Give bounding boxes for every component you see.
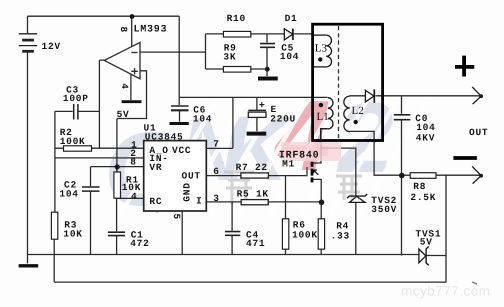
faint chinese-like glyphs bbox=[144, 172, 362, 213]
svg-text:10K: 10K bbox=[63, 228, 82, 239]
svg-text:3: 3 bbox=[213, 193, 219, 204]
wire: C1 stubs bbox=[116, 198, 118, 254]
plus output arrow terminal bbox=[472, 87, 481, 104]
wire: L2 bottom exit bbox=[350, 131, 402, 175]
wire: 12V vertical drop bbox=[178, 16, 180, 105]
plus output symbol bbox=[455, 56, 474, 77]
svg-text:5V: 5V bbox=[117, 109, 130, 120]
wire: R4 leads bbox=[320, 202, 322, 255]
svg-text:LM393: LM393 bbox=[134, 25, 168, 36]
wire: TVS1 cathode to corner bbox=[54, 256, 446, 283]
wire: C5 bottom stub bbox=[266, 47, 268, 76]
wire: LM393 pin4 stub bbox=[130, 74, 132, 101]
wire: battery bottom to bottom rail bbox=[27, 52, 29, 255]
wire: TVS2 branch bbox=[321, 148, 356, 196]
wire: VR link vertical bbox=[116, 119, 118, 172]
svg-text:104: 104 bbox=[280, 51, 299, 62]
svg-text:104: 104 bbox=[193, 113, 212, 124]
wire: left bus to R3 bbox=[54, 111, 56, 212]
capacitor E 220U electrolytic bbox=[248, 102, 266, 117]
resistor R9 3K bbox=[223, 67, 250, 73]
svg-text:VR: VR bbox=[149, 162, 162, 173]
wire: output line with diode to plus terminal bbox=[376, 95, 480, 97]
svg-text:7: 7 bbox=[213, 139, 219, 150]
wire: R9 R10 left node bbox=[205, 34, 207, 69]
svg-text:471: 471 bbox=[246, 238, 265, 249]
wire: pin2 line bbox=[55, 157, 143, 159]
svg-text:4: 4 bbox=[119, 83, 130, 89]
wire: R6 branch bbox=[285, 176, 287, 255]
wire: R3 bottom lead bbox=[53, 239, 55, 255]
svg-text:L1: L1 bbox=[317, 111, 329, 123]
wire: C4 stubs bbox=[231, 202, 233, 255]
resistor R3 10K bbox=[51, 212, 57, 239]
IC U1 UC3845 bbox=[144, 141, 207, 211]
resistor R1 10K bbox=[114, 172, 121, 198]
zener TVS1 5V bbox=[419, 246, 429, 265]
svg-text:5V: 5V bbox=[420, 237, 433, 248]
wire: battery top stub bbox=[27, 16, 29, 33]
node: MOSFET source node bbox=[319, 200, 325, 206]
svg-text:D1: D1 bbox=[285, 13, 298, 24]
wire: C5 top stub bbox=[266, 34, 268, 43]
zener TVS2 350V bbox=[347, 194, 367, 202]
svg-text:R5 1K: R5 1K bbox=[237, 188, 269, 199]
svg-text:6: 6 bbox=[213, 166, 219, 177]
wire: D1 to transformer bbox=[294, 33, 313, 35]
svg-text:8: 8 bbox=[130, 156, 136, 167]
svg-text:4KV: 4KV bbox=[416, 132, 435, 143]
node: C5/R9 ground junction bbox=[265, 67, 270, 72]
svg-text:R10: R10 bbox=[227, 13, 246, 24]
wire: R10 leads bbox=[206, 33, 285, 35]
svg-text:OUT: OUT bbox=[182, 171, 201, 182]
node: VR junction bbox=[115, 164, 120, 169]
svg-text:I: I bbox=[196, 196, 202, 207]
svg-text:100P: 100P bbox=[63, 93, 89, 104]
transformer T1 core box bbox=[313, 24, 383, 140]
wire: pin5 ground stub bbox=[181, 211, 183, 255]
ground bar under C5 bbox=[258, 77, 278, 81]
svg-text:RC: RC bbox=[149, 196, 162, 207]
svg-text:GND: GND bbox=[182, 182, 193, 201]
wire: LM393 minus input line bbox=[140, 51, 206, 53]
node: rail junction above LM393 bbox=[130, 14, 135, 19]
watermark bbox=[104, 80, 491, 299]
wire: pin8 line bbox=[91, 166, 144, 168]
wire: MOSFET source bbox=[313, 179, 322, 202]
svg-text:5: 5 bbox=[171, 214, 182, 220]
wire: R1 top lead bbox=[116, 167, 118, 172]
MOSFET M1 IRF840 bbox=[281, 142, 341, 161]
wire: minus line down to TVS1 cathode bbox=[445, 175, 447, 255]
winding L3 bbox=[314, 35, 332, 67]
node: output minus node bbox=[399, 173, 405, 179]
svg-text:VCC: VCC bbox=[172, 145, 191, 156]
resistor R10 bbox=[223, 31, 250, 37]
resistor R6 100K bbox=[282, 219, 288, 249]
svg-text:350V: 350V bbox=[371, 204, 397, 215]
resistor R7 22 bbox=[241, 173, 269, 178]
winding L2 bbox=[344, 96, 350, 132]
wire: R3 through-rail drop bbox=[53, 255, 55, 283]
minus output symbol bbox=[453, 156, 477, 160]
svg-text:220U: 220U bbox=[270, 114, 296, 125]
resistor R2 100K bbox=[64, 146, 92, 151]
svg-text:4: 4 bbox=[131, 191, 137, 202]
capacitor C5 104 bbox=[260, 44, 275, 48]
svg-text:100K: 100K bbox=[292, 230, 318, 241]
svg-text:mcyb777.com: mcyb777.com bbox=[401, 284, 491, 299]
resistor R5 1K bbox=[241, 200, 268, 205]
wire: bottom rail bbox=[28, 254, 419, 256]
svg-text:R8: R8 bbox=[413, 181, 426, 192]
node dots bbox=[115, 14, 405, 205]
capacitor C2 104 bbox=[82, 187, 100, 191]
wire: C3 right bbox=[78, 110, 99, 112]
svg-text:104: 104 bbox=[59, 188, 78, 199]
svg-text:UC3845: UC3845 bbox=[145, 131, 184, 142]
wire: gate line from R7 bbox=[268, 175, 307, 177]
capacitor C6 104 bbox=[171, 106, 189, 110]
svg-text:L3: L3 bbox=[315, 43, 328, 55]
svg-text:.33: .33 bbox=[331, 230, 350, 241]
diode D1 bbox=[284, 29, 293, 40]
wire: top 12V rail bbox=[28, 15, 180, 17]
output rectifier diode bbox=[365, 89, 374, 102]
svg-text:472: 472 bbox=[130, 238, 149, 249]
wire: E cap stubs bbox=[256, 97, 258, 131]
ground bar under C6 bbox=[170, 122, 189, 125]
svg-text:100K: 100K bbox=[60, 136, 86, 147]
wire: LM393 V+ stub bbox=[131, 16, 133, 47]
wire: R8 leads bbox=[402, 174, 480, 176]
wire: C0 stubs bbox=[401, 96, 403, 175]
svg-text:L2: L2 bbox=[352, 105, 364, 117]
wire: C6 stub bbox=[179, 110, 181, 122]
battery B1 12V bbox=[19, 34, 38, 52]
ground symbol bottom-left bbox=[19, 264, 39, 267]
wire: R5 right lead to source node bbox=[268, 201, 321, 203]
wire: C2 branch bbox=[90, 167, 92, 255]
svg-text:R7 22: R7 22 bbox=[236, 162, 268, 173]
svg-text:12V: 12V bbox=[42, 41, 61, 52]
wire: pin1 line bbox=[99, 147, 143, 149]
wire: R7 lead from pin6 bbox=[206, 175, 241, 177]
capacitor C1 472 bbox=[108, 232, 125, 235]
wire: drain vertical bbox=[313, 141, 321, 163]
wire: L1 bottom exit to drain bbox=[321, 129, 328, 142]
capacitor C0 104 4KV bbox=[394, 115, 411, 120]
svg-text:M1: M1 bbox=[282, 158, 295, 169]
wire: ground stub left bbox=[27, 255, 29, 264]
resistor R8 2.5K bbox=[410, 173, 436, 179]
5V rail bar under LM393 bbox=[122, 100, 142, 103]
wire: VCC branch bbox=[206, 97, 233, 148]
op-amp U2 LM393 bbox=[104, 42, 140, 78]
ground bar under E bbox=[247, 132, 267, 136]
capacitor C4 471 bbox=[225, 232, 240, 236]
minus output arrow terminal bbox=[472, 166, 481, 183]
wire: pin3 line to R5 bbox=[206, 201, 241, 203]
wire: pin4 line bbox=[117, 197, 144, 199]
wire: R9 leads bbox=[206, 68, 268, 70]
svg-text:3K: 3K bbox=[223, 52, 236, 63]
transformer center dashed line bbox=[338, 26, 340, 139]
wire: C0 node down to TVS1 rail bbox=[401, 175, 403, 255]
wire: C3 left bbox=[55, 110, 73, 112]
svg-text:8: 8 bbox=[118, 27, 129, 33]
svg-text:2.5K: 2.5K bbox=[410, 192, 436, 203]
capacitor C3 100P bbox=[74, 104, 78, 120]
wire: op-amp output vertical bbox=[99, 60, 104, 148]
winding L1 bbox=[321, 98, 333, 142]
wire: TVS2 bottom stub bbox=[355, 202, 357, 254]
resistor R4 .33 bbox=[318, 219, 324, 249]
wire: LM393 plus input path bbox=[117, 71, 147, 119]
wire: L2 top to diode bbox=[350, 95, 366, 97]
wire: R2 leads bbox=[55, 147, 99, 149]
wire: 12V horizontal feed bbox=[179, 96, 327, 98]
svg-text:OUT: OUT bbox=[469, 127, 488, 138]
